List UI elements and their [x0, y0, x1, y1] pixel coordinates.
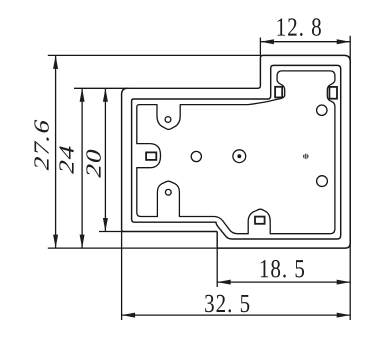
- thick square in bottom house boss: [255, 217, 265, 224]
- circle top-right: [317, 105, 327, 115]
- label 20: [86, 148, 101, 178]
- dim line 18.5: [217, 281, 350, 283]
- extension line bottom (27.6/24): [48, 247, 217, 249]
- inner wall contour: [132, 65, 341, 239]
- label 18.5: [261, 260, 304, 278]
- dimension lines: [48, 36, 350, 320]
- arrowheads: [53, 39, 350, 317]
- 20 arrows: [103, 88, 108, 102]
- 24 arrows: [80, 88, 85, 102]
- dim line 32.5: [122, 314, 351, 316]
- ext line 18.5 left: [216, 248, 218, 287]
- 32.5 arrows: [122, 313, 136, 318]
- label 32.5: [205, 295, 249, 313]
- circle left-center: [191, 151, 201, 161]
- left tab thick rect: [275, 87, 282, 98]
- 18.5 arrows: [217, 280, 231, 285]
- boss hole bottom-left: [165, 189, 171, 195]
- thick square in left D-bump: [146, 152, 156, 160]
- dim line 24: [81, 88, 83, 248]
- extension line top of left part (24/20): [74, 87, 129, 89]
- label 12.8: [278, 18, 321, 36]
- label 27.6: [34, 119, 49, 171]
- outer profile contour: [122, 55, 351, 248]
- ext line right edge: [349, 36, 351, 320]
- dim line 27.6: [55, 55, 57, 248]
- circle middle with dot: [233, 150, 246, 163]
- label 24: [59, 144, 73, 174]
- dim line 12.8: [260, 41, 350, 43]
- circle bottom-right: [317, 176, 328, 187]
- dim line 20: [104, 88, 106, 231]
- ext line 12.8 left: [259, 38, 261, 56]
- extension line top (27.6): [48, 54, 261, 56]
- small filled dot feature: [303, 153, 308, 159]
- extension line bottom-left (20): [99, 231, 125, 233]
- boss hole top-left: [165, 117, 171, 123]
- right tab thick rect: [329, 87, 337, 99]
- 12.8 arrows: [260, 39, 274, 44]
- cavity contour with bosses and tab pockets: [137, 71, 335, 234]
- 27.6 arrows: [53, 55, 58, 69]
- ext line 32.5 left: [121, 232, 123, 321]
